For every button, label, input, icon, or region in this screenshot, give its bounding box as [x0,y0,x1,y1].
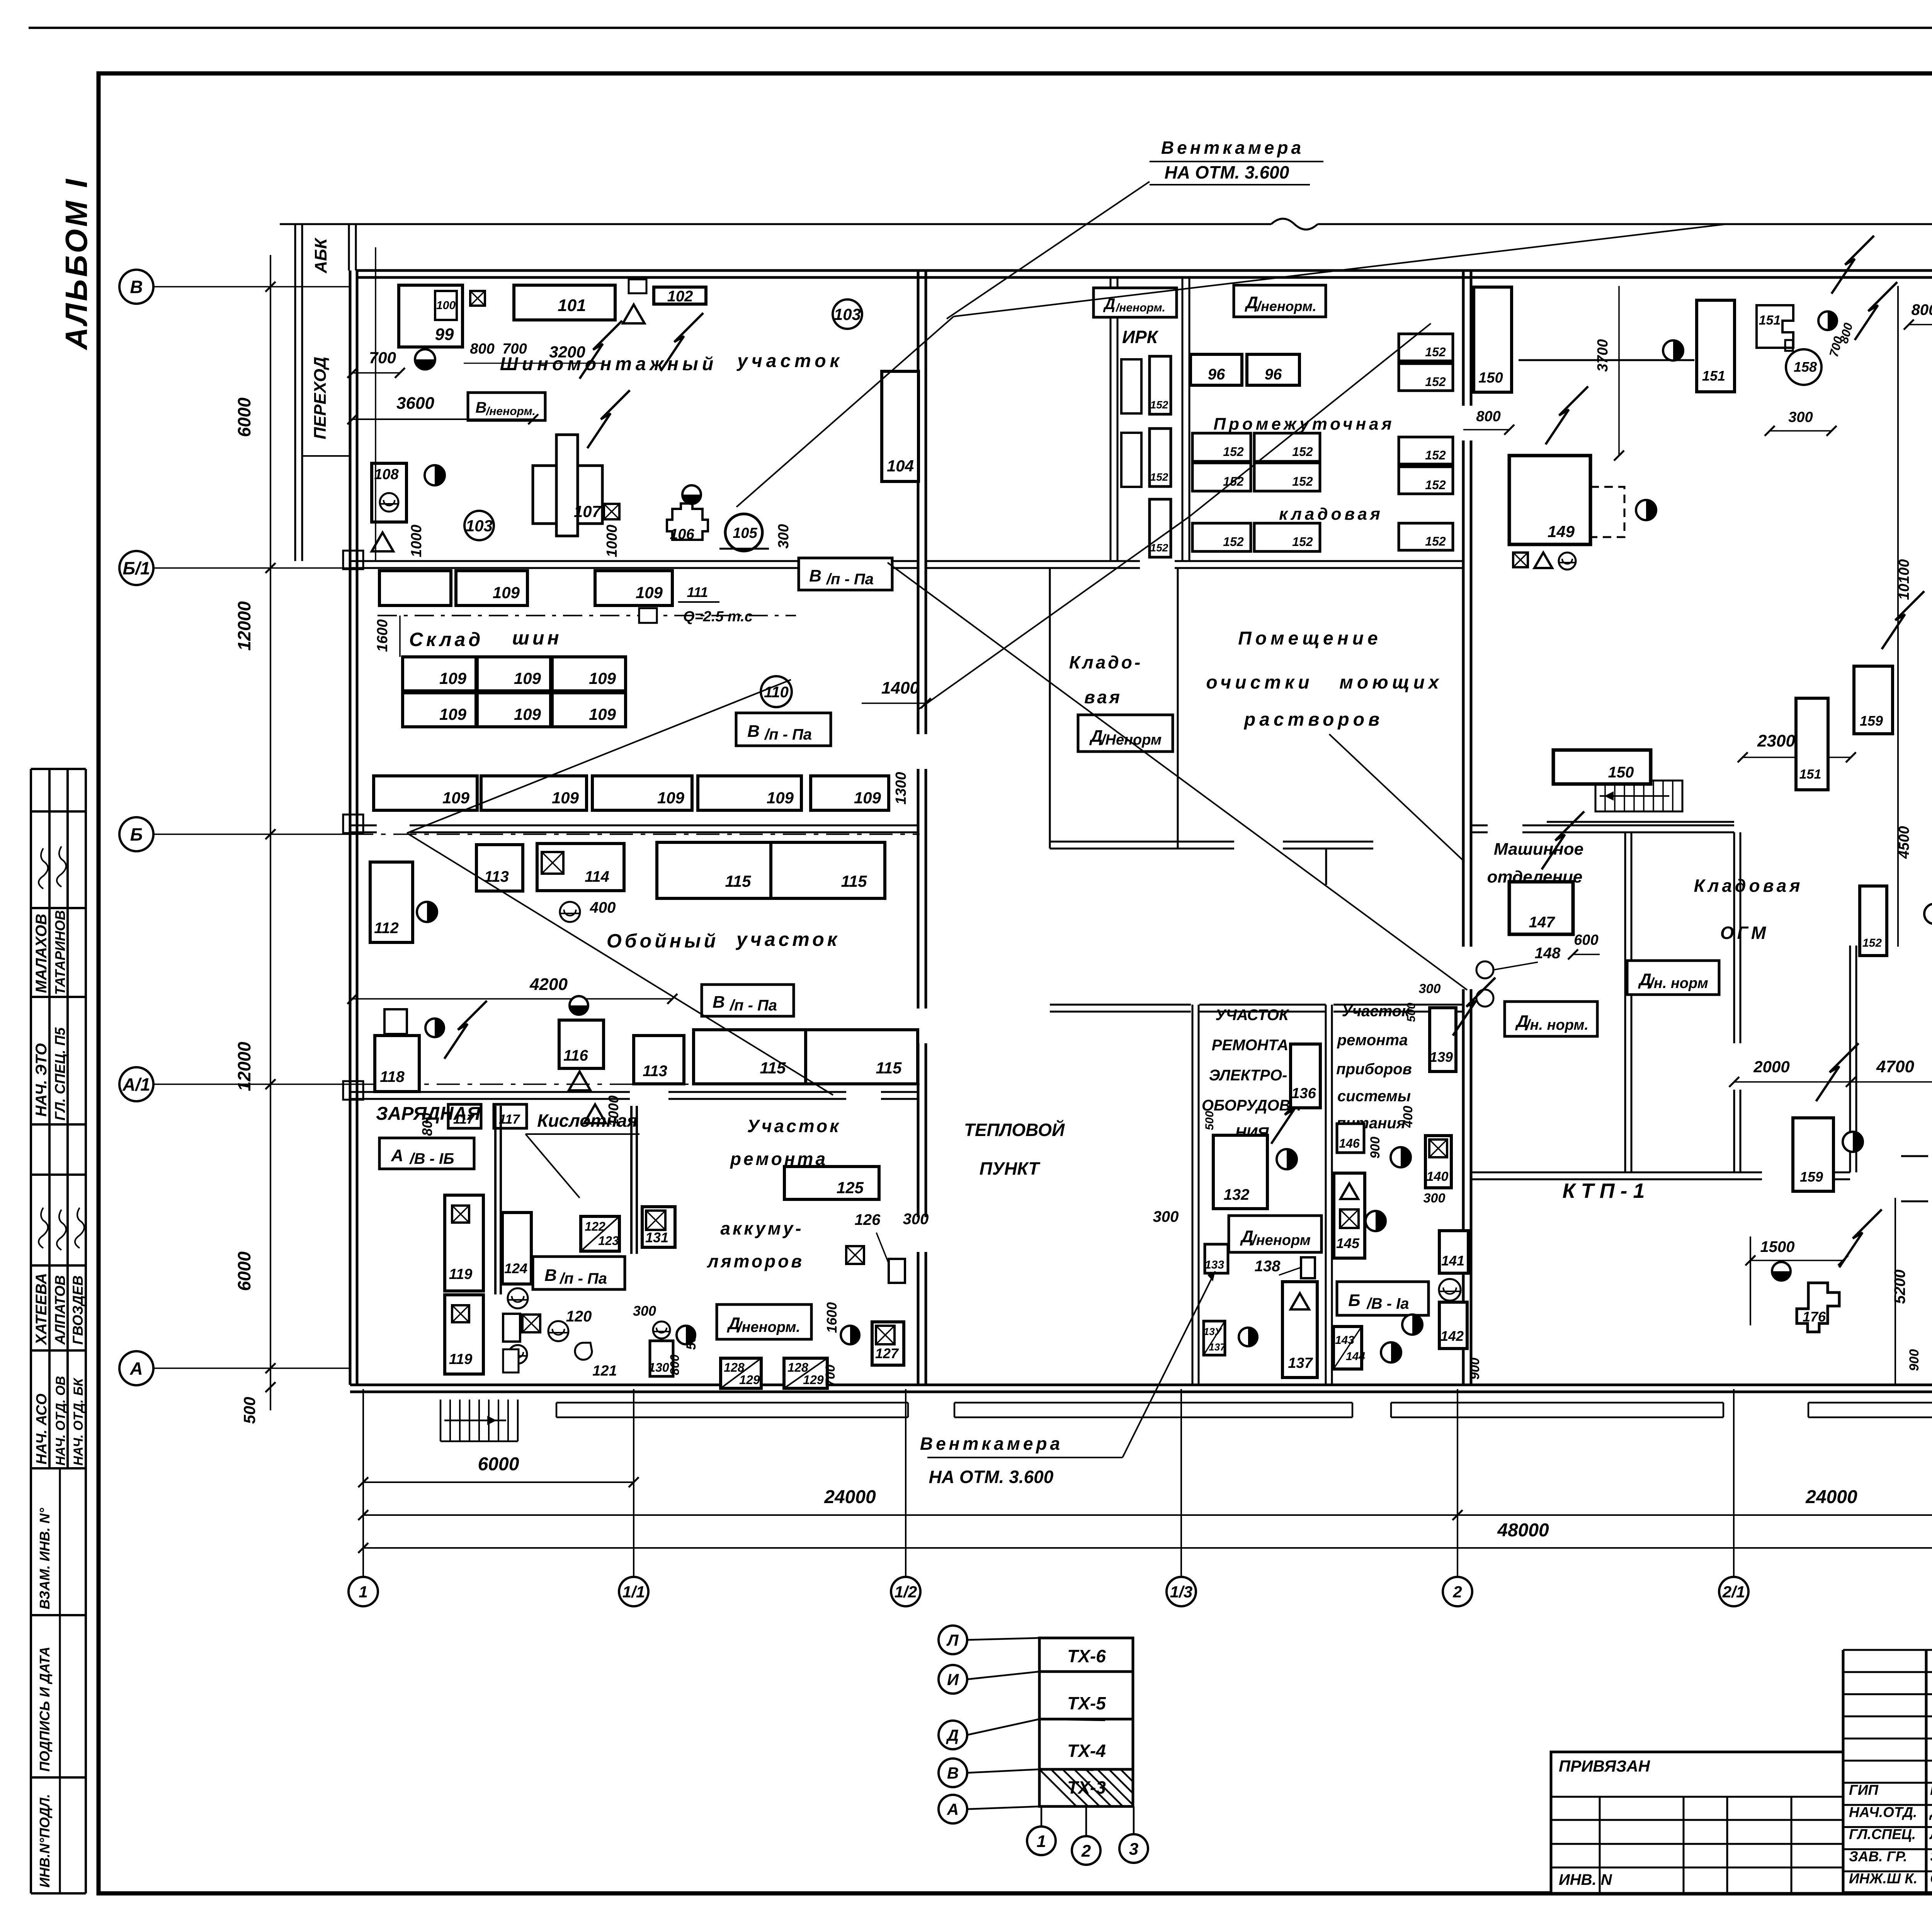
svg-text:АБК: АБК [311,237,330,274]
svg-text:участок: участок [735,929,840,950]
svg-text:176: 176 [1803,1309,1826,1325]
svg-text:Участок: Участок [1342,1003,1410,1020]
svg-text:101: 101 [558,296,586,315]
svg-text:РЕМОНТА: РЕМОНТА [1212,1037,1288,1054]
svg-text:48000: 48000 [1497,1520,1549,1541]
svg-text:151: 151 [1799,767,1821,782]
svg-text:Б: Б [1348,1291,1360,1310]
svg-text:700: 700 [823,1365,838,1387]
equipment 113b [634,1036,684,1084]
bottom wall [350,1384,1932,1386]
svg-text:800: 800 [419,1113,435,1136]
equipment 116 [559,1020,604,1068]
svg-text:ЗАЙЦЕВ: ЗАЙЦЕВ [1930,1848,1932,1864]
left wall [349,270,352,1385]
svg-text:109: 109 [657,789,685,807]
svg-text:109: 109 [589,705,616,723]
class box d-nenorm akkum [717,1304,811,1339]
axis2 wall [1462,270,1465,406]
svg-text:ТХ-6: ТХ-6 [1067,1646,1106,1666]
class box d-nenorm pribory [1229,1216,1321,1252]
svg-text:/ненорм.: /ненорм. [1115,301,1165,314]
svg-text:111: 111 [687,584,708,600]
wall B left block [350,825,377,827]
svg-text:КОРОСТЕЛЕВ: КОРОСТЕЛЕВ [1930,1782,1932,1798]
svg-text:12000: 12000 [234,601,254,651]
svg-text:900: 900 [1907,1349,1922,1371]
svg-text:/п - Па: /п - Па [559,1270,607,1287]
svg-text:112: 112 [374,920,399,937]
svg-text:ХАТЕЕВА: ХАТЕЕВА [33,1273,50,1345]
svg-text:104: 104 [887,457,914,475]
equipment 130 [650,1341,673,1376]
stairs bottom-left [440,1400,441,1441]
svg-text:152: 152 [1292,535,1313,549]
svg-text:103: 103 [834,305,861,323]
svg-text:700: 700 [502,341,527,357]
svg-text:ляторов: ляторов [707,1251,804,1271]
svg-text:159: 159 [1860,713,1883,729]
equipment 140 [1425,1136,1451,1188]
svg-text:ИРК: ИРК [1122,327,1159,347]
svg-text:152: 152 [1150,471,1168,483]
svg-text:139: 139 [1430,1049,1453,1065]
equipment 152 col promezhut right [1399,334,1453,361]
equipment 132 [1213,1135,1267,1209]
svg-text:2300: 2300 [1757,731,1795,750]
equipment 114 [537,844,624,891]
svg-text:147: 147 [1529,914,1555,931]
svg-text:НАЧ.ОТД.: НАЧ.ОТД. [1849,1804,1917,1820]
svg-text:136: 136 [1291,1085,1316,1102]
loading platforms [556,1402,908,1404]
svg-text:Венткамера: Венткамера [1161,138,1304,158]
svg-text:109: 109 [442,789,470,807]
symbol halfcircle 2 [425,465,445,485]
title block signature table [1842,1650,1845,1893]
bottom axis circles [349,1577,378,1606]
svg-text:96: 96 [1208,366,1225,383]
svg-text:/В - Iа: /В - Iа [1366,1295,1409,1312]
symbol xbox 106 left [604,504,619,519]
svg-text:МАЛАХОВ: МАЛАХОВ [33,914,50,993]
svg-text:Машинное: Машинное [1494,840,1583,859]
long diagonal leader 2 [736,316,954,507]
svg-text:400: 400 [1401,1106,1415,1128]
svg-text:вая: вая [1084,687,1122,707]
equipment 109 row1 [379,571,451,605]
svg-text:138: 138 [1255,1258,1281,1275]
stairs mid [1595,781,1682,811]
svg-text:12000: 12000 [234,1042,254,1091]
equipment 146 [1337,1124,1364,1153]
legend bottom circles [1027,1827,1056,1855]
svg-text:130: 130 [648,1361,669,1374]
svg-text:119: 119 [449,1351,473,1367]
svg-text:ТХ-5: ТХ-5 [1067,1693,1106,1713]
svg-text:500: 500 [684,1328,699,1350]
equipment 149 [1509,456,1590,544]
svg-text:Кладо-: Кладо- [1069,652,1143,672]
svg-text:109: 109 [514,669,541,687]
svg-text:ОСТРОВЕРХОВА: ОСТРОВЕРХОВА [1930,1871,1932,1886]
svg-text:очистки: очистки [1206,672,1313,693]
equipment 108 [372,463,406,522]
legend table [1039,1638,1133,1806]
svg-text:ОГМ: ОГМ [1720,923,1769,943]
svg-text:В: В [747,722,760,741]
svg-text:300: 300 [1419,981,1441,996]
left dim line [270,255,271,1410]
svg-text:ПУНКТ: ПУНКТ [980,1158,1041,1179]
svg-text:121: 121 [592,1363,617,1379]
svg-text:123: 123 [598,1234,619,1248]
svg-text:143: 143 [1335,1334,1354,1347]
svg-text:Л: Л [946,1631,959,1649]
equipment 141 [1439,1231,1468,1273]
svg-text:Б/1: Б/1 [123,558,150,578]
svg-text:системы: системы [1337,1088,1411,1105]
svg-text:/н. норм: /н. норм [1649,975,1708,992]
pribory room top wall [1333,1004,1463,1006]
equipment 120 121 symbols [548,1321,568,1341]
stamp signature scribbles [39,849,48,889]
equipment 159b [1793,1118,1833,1191]
svg-text:ПОДПИСЬ И ДАТА: ПОДПИСЬ И ДАТА [37,1646,53,1772]
svg-text:125: 125 [837,1179,864,1197]
svg-text:3200: 3200 [549,343,585,361]
svg-text:300: 300 [1153,1208,1179,1225]
svg-text:24000: 24000 [1805,1487,1857,1507]
svg-text:500: 500 [240,1397,259,1424]
IRK right wall [1182,277,1184,561]
svg-text:Помещение: Помещение [1238,628,1381,649]
svg-text:УЧАСТОК: УЧАСТОК [1215,1007,1289,1024]
symbol triangle under 108 [372,532,393,551]
left block right wall [917,270,920,734]
svg-text:растворов: растворов [1243,709,1383,730]
pomeshenie ochistki walls [1283,841,1373,843]
symbol halfcircle 106 [682,485,701,504]
small box above 102 [629,279,646,293]
svg-text:152: 152 [1223,445,1244,459]
svg-text:152: 152 [1425,345,1446,359]
svg-text:113: 113 [643,1063,667,1080]
svg-text:Д: Д [1240,1227,1253,1246]
equipment 145 [1334,1173,1365,1258]
svg-text:НАЧ. ОТД. ОВ: НАЧ. ОТД. ОВ [53,1376,68,1466]
svg-text:5200: 5200 [1891,1270,1908,1304]
kladovaya walls [1049,568,1051,849]
svg-text:133: 133 [1205,1259,1224,1271]
svg-text:НА ОТМ. 3.600: НА ОТМ. 3.600 [1165,162,1289,182]
symbol triangle near 101 [623,304,645,323]
svg-text:300: 300 [903,1211,929,1228]
class box d-n-norm ogm [1627,961,1719,995]
diagonal kladovaya [918,517,1189,710]
svg-text:2: 2 [1081,1842,1091,1861]
svg-text:129: 129 [739,1373,760,1387]
svg-text:1: 1 [359,1583,367,1601]
svg-text:109: 109 [439,669,467,687]
corridor perehod [294,224,296,561]
long diagonal leader 1 [954,224,1726,316]
svg-text:К Т П - 1: К Т П - 1 [1562,1179,1645,1202]
svg-text:Обойный: Обойный [607,930,719,952]
svg-text:129: 129 [803,1373,824,1387]
equipment 133 [1205,1244,1228,1273]
svg-text:800: 800 [470,341,494,357]
equipment 128 129 a [721,1358,761,1388]
svg-text:159: 159 [1800,1169,1823,1185]
svg-text:117: 117 [453,1112,475,1127]
class box v-p-IIa oboyny [702,985,794,1016]
equipment 96 a [1190,354,1242,385]
svg-text:приборов: приборов [1336,1061,1412,1078]
svg-text:1500: 1500 [1760,1238,1795,1255]
equipment 152 col IRK [1150,356,1171,414]
svg-text:109: 109 [552,789,579,807]
title attach table [1551,1752,1843,1893]
svg-text:109: 109 [493,583,520,602]
svg-text:500: 500 [1203,1111,1216,1130]
svg-text:10100: 10100 [1896,559,1912,600]
stamp table upper [31,768,86,770]
electro room wall [1325,1005,1327,1385]
class box b-v-Ia [1337,1282,1429,1315]
diagonal oboyny b [407,833,833,1095]
symbol halfcircle oboyny [417,902,437,922]
equipment 127 [872,1322,904,1365]
svg-text:400: 400 [590,899,616,916]
svg-text:141: 141 [1441,1253,1464,1269]
svg-text:1600: 1600 [374,619,391,652]
svg-text:3700: 3700 [1595,339,1611,372]
equipment 151 top [1697,300,1735,392]
svg-text:800: 800 [668,1354,682,1375]
equipment 109 row3 [403,693,476,727]
symbols under 124 [508,1288,528,1308]
wall A1 left block [350,1091,630,1093]
class box v-p-IIa sklad1 [799,558,892,590]
svg-text:115: 115 [841,872,867,890]
svg-text:3600: 3600 [396,394,434,413]
equipment 113 [476,845,523,891]
svg-text:126: 126 [855,1211,881,1228]
svg-text:116: 116 [563,1047,588,1064]
svg-text:300: 300 [1788,409,1813,425]
svg-text:НАЧ. ЭТО: НАЧ. ЭТО [33,1043,50,1117]
svg-text:1/2: 1/2 [895,1583,917,1601]
axis A1 dash into plan [350,1083,920,1085]
svg-text:4700: 4700 [1876,1057,1914,1076]
svg-text:120: 120 [566,1308,592,1325]
svg-text:109: 109 [589,669,616,687]
svg-text:102: 102 [667,288,693,305]
equipment 131 [642,1207,675,1247]
svg-text:В: В [713,993,725,1012]
svg-text:ИНВ.N°ПОДЛ.: ИНВ.N°ПОДЛ. [37,1794,53,1888]
class box a-v-Ib [379,1138,474,1169]
svg-text:В: В [809,566,821,585]
equipment 119b [445,1295,483,1374]
corridor dim line [375,247,376,561]
svg-text:117: 117 [499,1112,520,1127]
svg-text:2: 2 [1452,1583,1462,1601]
svg-text:2/1: 2/1 [1722,1583,1745,1601]
class box d-nenorm promezhut [1234,285,1326,317]
svg-text:152: 152 [1425,478,1446,492]
svg-text:/ненорм.: /ненорм. [1256,298,1316,314]
svg-text:Д: Д [946,1726,959,1744]
svg-text:144: 144 [1346,1350,1365,1363]
equipment 128 129 b [784,1358,827,1388]
class box d-nenorm IRK [1094,288,1177,317]
svg-text:115: 115 [760,1059,786,1077]
svg-text:118: 118 [380,1068,405,1085]
svg-text:109: 109 [767,789,794,807]
equipment 142 [1439,1302,1467,1349]
svg-text:/н. норм.: /н. норм. [1525,1017,1588,1033]
svg-text:АЛПАТОВ: АЛПАТОВ [52,1275,68,1345]
svg-text:1300: 1300 [893,772,909,805]
svg-text:НАЧ. АСО: НАЧ. АСО [34,1393,50,1464]
equipment 102 [654,287,706,304]
svg-text:А: А [129,1359,143,1379]
svg-text:152: 152 [1292,474,1313,488]
equipment 100 [435,291,457,320]
diagonal oboyny a [407,680,791,833]
wall B1 left block [350,560,808,562]
equipment 117 [448,1104,481,1128]
equipment 119a [445,1195,483,1291]
svg-text:/ненорм: /ненорм [1251,1232,1311,1248]
svg-text:151: 151 [1702,368,1725,384]
top wall [356,269,1932,272]
svg-text:Кислотная: Кислотная [537,1111,637,1131]
svg-text:148: 148 [1535,945,1561,962]
svg-text:/ненорм.: /ненорм. [737,1319,800,1335]
svg-text:ЭЛЕКТРО-: ЭЛЕКТРО- [1209,1067,1287,1084]
svg-text:152: 152 [1425,375,1446,389]
equipment 148 symbols [1476,961,1493,978]
svg-text:ГЛ. СПЕЦ. П5: ГЛ. СПЕЦ. П5 [52,1027,68,1121]
svg-text:ГЛ.СПЕЦ.: ГЛ.СПЕЦ. [1849,1827,1916,1842]
diagonal line mid [888,563,1467,990]
svg-text:ЗАВ. ГР.: ЗАВ. ГР. [1849,1849,1907,1864]
equipment 118 [375,1036,419,1092]
svg-text:А/1: А/1 [122,1075,150,1095]
svg-text:128: 128 [787,1361,808,1374]
svg-text:600: 600 [1574,932,1598,948]
equipment 150b [1553,750,1651,784]
svg-text:131: 131 [645,1230,668,1245]
svg-text:ПРИВЯЗАН: ПРИВЯЗАН [1559,1757,1651,1775]
symbol halfcircle shinomontazh [415,349,435,369]
svg-text:149: 149 [1548,522,1575,541]
equipment 139 [1430,1008,1456,1071]
svg-text:700: 700 [369,349,396,367]
stamp table lower [31,1614,86,1616]
svg-text:105: 105 [733,525,757,541]
equipment 115 pair1 [657,842,771,898]
equipment 176 [1797,1283,1839,1332]
equipment 125 [784,1167,879,1199]
svg-text:ГВОЗДЕВ: ГВОЗДЕВ [70,1276,86,1345]
equipment 159a [1854,666,1893,734]
class box d-nenorm kladovaya [1078,715,1173,752]
svg-text:А: А [947,1800,959,1818]
svg-text:Склад: Склад [409,629,484,650]
symbol triangle 117 [584,1104,606,1123]
legend axis circles [939,1626,967,1654]
svg-text:115: 115 [876,1059,902,1077]
svg-text:6000: 6000 [478,1454,519,1475]
svg-text:150: 150 [1608,764,1634,781]
svg-text:150: 150 [1478,370,1503,386]
svg-text:В: В [544,1266,557,1285]
svg-text:800: 800 [1912,301,1932,318]
equipment 124 [502,1213,531,1284]
svg-text:И: И [947,1670,959,1689]
equipment 99 [399,285,463,347]
svg-text:109: 109 [854,789,881,807]
svg-text:114: 114 [585,868,609,885]
bottom dimension lines [363,1481,634,1483]
svg-text:152: 152 [1425,534,1446,548]
equipment 152c [1860,886,1887,956]
equipment 106 [667,503,708,540]
plan top boundary line [280,223,1271,225]
svg-text:300: 300 [1423,1191,1446,1206]
svg-text:/п - Па: /п - Па [826,571,874,588]
equipment 147 [1509,882,1573,934]
equipment 152 col IRK left2 [1121,359,1141,413]
svg-text:А: А [391,1146,403,1165]
axis B dash into plan [350,833,920,835]
svg-text:127: 127 [875,1345,899,1361]
ogm kladovaya walls [1624,832,1626,1172]
symbol xbox near 99 [470,291,485,306]
svg-text:ремонта: ремонта [1337,1032,1408,1049]
svg-text:152: 152 [1862,937,1882,949]
svg-text:Q=2.5 т.с: Q=2.5 т.с [683,609,753,625]
svg-text:кладовая: кладовая [1279,505,1383,524]
svg-text:152: 152 [1425,448,1446,462]
crane dashed line 15000 [1901,1155,1932,1157]
class box v-p-IIa akkum [533,1257,625,1289]
svg-text:132: 132 [1224,1186,1250,1203]
equipment 112 [370,862,413,942]
svg-text:6000: 6000 [234,397,254,437]
svg-text:2000: 2000 [1753,1058,1789,1076]
wall pilasters left [343,551,363,569]
svg-text:Венткамера: Венткамера [920,1434,1063,1454]
svg-text:99: 99 [435,325,454,344]
svg-text:Участок: Участок [747,1116,841,1136]
svg-text:152: 152 [1223,535,1244,549]
equipment 109 row2 [403,657,476,691]
svg-text:900: 900 [1468,1358,1482,1380]
class box v-nenorm shinomontazh [468,393,545,420]
position circle 103b [464,511,494,540]
svg-text:участок: участок [736,351,843,371]
wall under 150 [1519,359,1694,361]
svg-text:В: В [947,1764,959,1782]
svg-text:152: 152 [1150,399,1168,411]
svg-text:115: 115 [725,872,752,890]
svg-text:Шиномонтажный: Шиномонтажный [500,354,717,374]
